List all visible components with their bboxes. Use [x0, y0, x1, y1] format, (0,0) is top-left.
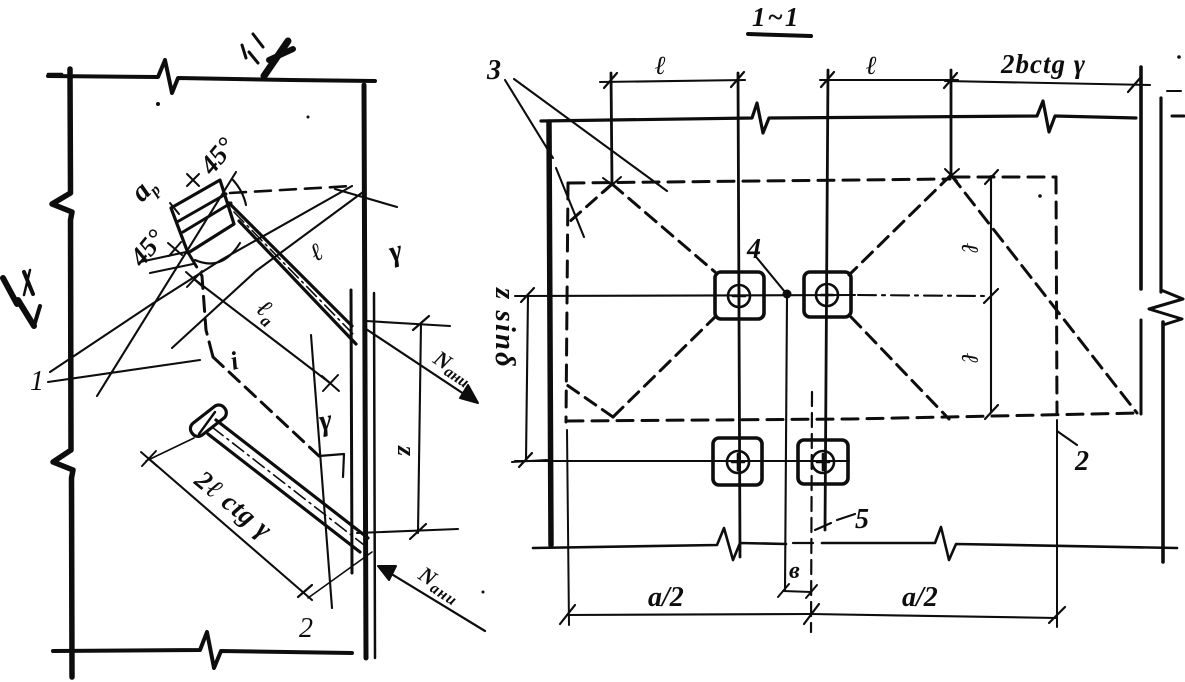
- svg-text:ℓ: ℓ: [866, 51, 877, 80]
- svg-text:1: 1: [30, 366, 44, 397]
- svg-text:в: в: [789, 558, 800, 584]
- svg-text:2: 2: [1074, 446, 1089, 477]
- svg-text:5: 5: [855, 504, 869, 535]
- svg-text:ℓ: ℓ: [655, 51, 666, 80]
- svg-text:z sinδ: z sinδ: [489, 287, 521, 369]
- svg-text:a/2: a/2: [648, 582, 684, 613]
- svg-text:a/2: a/2: [902, 582, 938, 613]
- svg-text:4: 4: [746, 234, 761, 265]
- svg-text:ℓ: ℓ: [956, 243, 982, 253]
- svg-text:3: 3: [486, 55, 501, 86]
- svg-text:z: z: [392, 445, 421, 457]
- svg-text:ℓ: ℓ: [956, 353, 982, 363]
- svg-text:2: 2: [299, 613, 313, 644]
- svg-text:2bctg γ: 2bctg γ: [1000, 49, 1086, 79]
- svg-text:1~1: 1~1: [752, 2, 800, 32]
